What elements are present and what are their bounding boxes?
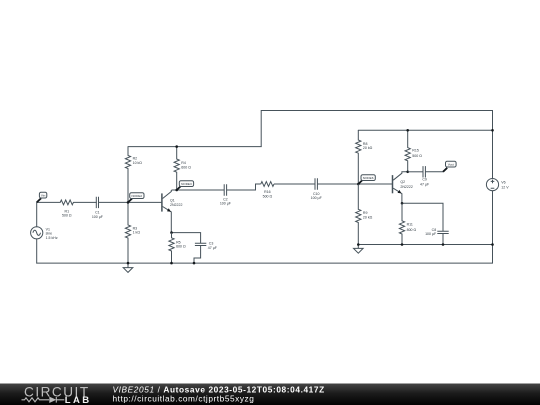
svg-text:C3: C3	[209, 241, 214, 245]
svg-text:2N2222: 2N2222	[170, 203, 182, 207]
junction node3	[175, 189, 178, 192]
wire C1 to node2	[99, 201, 129, 203]
svg-text:500 Ω: 500 Ω	[62, 214, 72, 218]
wire V1 top lead	[37, 202, 61, 226]
junction emitter2	[401, 202, 404, 205]
svg-text:100 µF: 100 µF	[220, 202, 232, 206]
wire C2 to R16 jog	[227, 184, 261, 190]
svg-text:100 µF: 100 µF	[92, 215, 104, 219]
svg-text:10 kΩ: 10 kΩ	[133, 161, 143, 165]
resistor R5	[169, 233, 174, 264]
node flag NODE6	[358, 175, 375, 184]
svg-text:Vout: Vout	[448, 163, 454, 167]
logo resistor diode glyph	[22, 397, 65, 403]
svg-text:R15: R15	[412, 149, 419, 153]
wire top supply jog	[261, 111, 492, 147]
resistor R15	[405, 130, 410, 172]
wire bottom ground rail	[37, 262, 493, 264]
svg-text:2N2222: 2N2222	[400, 185, 412, 189]
capacitor C10	[315, 178, 317, 189]
svg-text:800 Ω: 800 Ω	[407, 228, 417, 232]
resistor R3	[125, 202, 130, 263]
svg-text:47 µF: 47 µF	[420, 183, 430, 187]
svg-text:V6: V6	[501, 181, 505, 185]
junction ground rail right	[491, 243, 494, 246]
svg-text:C9: C9	[422, 178, 427, 182]
svg-text:600 Ω: 600 Ω	[181, 165, 191, 169]
wire C9 to Vout	[425, 171, 443, 173]
capacitor C9	[423, 166, 425, 177]
svg-text:1 kΩ: 1 kΩ	[133, 231, 141, 235]
svg-text:http://circuitlab.com/ctjprtb5: http://circuitlab.com/ctjprtb55xyzg	[113, 393, 255, 403]
svg-text:NODE2: NODE2	[131, 194, 142, 198]
svg-text:LAB: LAB	[65, 395, 92, 405]
svg-text:Q2: Q2	[400, 180, 405, 184]
svg-text:100 µF: 100 µF	[311, 196, 323, 200]
footer bar	[0, 384, 540, 405]
node flag NODE3	[177, 181, 194, 190]
resistor R4	[174, 147, 179, 190]
ground stage2	[354, 245, 364, 254]
wire Q1 collector to C2	[172, 189, 225, 191]
wire collector to C9	[408, 171, 423, 173]
svg-text:1.5 kHz: 1.5 kHz	[46, 236, 58, 240]
svg-text:47 µF: 47 µF	[208, 246, 218, 250]
svg-text:NODE3: NODE3	[181, 182, 192, 186]
svg-text:R11: R11	[407, 222, 413, 226]
ground stage1	[123, 263, 133, 272]
resistor R16	[261, 182, 274, 187]
node flag Vin	[37, 192, 47, 202]
junction C3 bottom	[193, 262, 196, 265]
resistor R1	[60, 200, 73, 205]
node flag NODE2	[128, 193, 144, 203]
wire C10 to Q2 base	[317, 183, 392, 185]
wire stage2 supply rail	[358, 129, 492, 131]
svg-text:20 kΩ: 20 kΩ	[363, 215, 373, 219]
svg-text:600 Ω: 600 Ω	[176, 245, 186, 249]
resistor R2	[125, 147, 130, 203]
wire C3 bottom jog	[194, 246, 201, 264]
capacitor C3	[195, 243, 206, 245]
wire node2 to Q1 base	[128, 201, 162, 203]
svg-text:20 kΩ: 20 kΩ	[363, 146, 373, 150]
voltage source V6	[486, 179, 498, 191]
svg-text:Vin: Vin	[41, 194, 46, 198]
junction supply top right	[491, 129, 494, 132]
capacitor C8	[437, 231, 448, 233]
wire V6 bottom lead	[492, 191, 494, 263]
junction ground2	[357, 243, 360, 246]
wire R16 to C10	[274, 183, 315, 185]
junction R15 top	[406, 129, 409, 132]
voltage source V1	[31, 227, 43, 239]
svg-text:100 µF: 100 µF	[425, 232, 437, 236]
svg-text:12 V: 12 V	[501, 185, 509, 189]
wire C8 bottom lead	[442, 234, 444, 245]
node flag Vout	[443, 161, 456, 172]
junction R5 bottom	[170, 262, 173, 265]
wire R1 to C1	[73, 201, 96, 203]
junction node6	[357, 183, 360, 186]
resistor R8	[356, 130, 361, 184]
junction ground1	[127, 262, 130, 265]
wire V6 top lead	[492, 130, 494, 178]
wire Q2 emitter node to C8	[402, 203, 443, 231]
svg-text:NODE6: NODE6	[363, 176, 374, 180]
junction emitter1	[170, 231, 173, 234]
wire V1 bottom lead	[36, 239, 38, 263]
junction node2	[127, 201, 130, 204]
wire stage1 supply rail	[128, 146, 261, 148]
svg-text:Q1: Q1	[170, 198, 175, 202]
junction C8 bottom	[442, 243, 445, 246]
wire Q1 emitter node	[172, 233, 201, 244]
capacitor C1	[96, 197, 98, 208]
wire stage2 ground rail	[358, 244, 492, 246]
transistor Q2	[393, 172, 408, 204]
junction R11 bottom	[401, 243, 404, 246]
junction Q2 collector	[406, 171, 409, 174]
resistor R11	[399, 203, 404, 244]
capacitor C2	[224, 184, 226, 195]
svg-text:500 Ω: 500 Ω	[263, 194, 273, 198]
transistor Q1	[162, 190, 171, 233]
junction R4 top	[175, 145, 178, 148]
svg-text:500 Ω: 500 Ω	[412, 154, 422, 158]
resistor R9	[356, 184, 361, 245]
